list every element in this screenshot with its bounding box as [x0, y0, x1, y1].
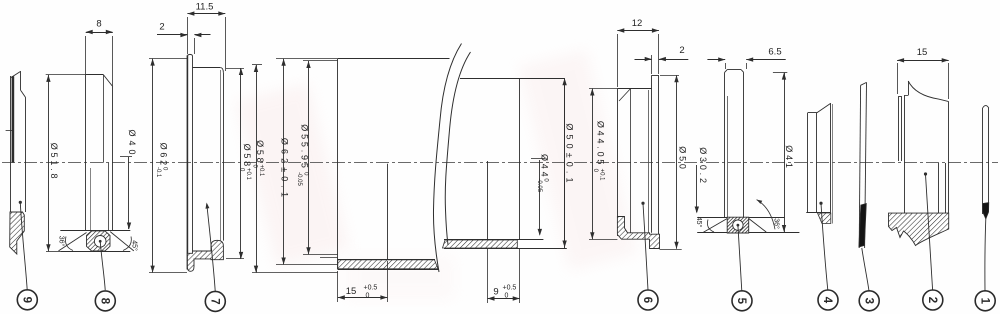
svg-text:45°: 45°: [695, 217, 703, 228]
svg-text:9: 9: [493, 287, 498, 298]
part 6: cup outline: [617, 89, 619, 236]
part 5 contact angle 36 deg: [749, 219, 767, 233]
svg-text:15: 15: [917, 47, 928, 58]
svg-text:45°: 45°: [131, 240, 139, 251]
part 2: cap outline: [898, 96, 900, 161]
leader to balloon 9: [19, 201, 22, 204]
head tube dim Ø55.95 -0.05: [303, 60, 338, 62]
part 8: bearing outline: [85, 75, 87, 231]
part 9 section hatch: [10, 212, 25, 254]
leader to balloon 8: [99, 240, 102, 243]
svg-text:Ø50±0.1: Ø50±0.1: [565, 123, 575, 186]
svg-text:Ø58: Ø58: [242, 144, 252, 169]
svg-text:4: 4: [821, 297, 833, 304]
leader to balloon 6: [641, 202, 644, 205]
part 3 dark section: [859, 204, 866, 248]
balloon 4: [818, 290, 838, 310]
part 7 dim 2: [194, 38, 196, 54]
svg-text:36°: 36°: [773, 218, 781, 229]
svg-text:-0.1: -0.1: [155, 167, 161, 178]
part 8 contact angle 45 deg: [110, 232, 134, 251]
svg-text:Ø58: Ø58: [255, 140, 265, 165]
svg-text:9: 9: [20, 297, 32, 303]
part 7: cup body: [193, 67, 221, 69]
svg-text:36°: 36°: [58, 236, 66, 247]
balloon 6: [638, 290, 658, 310]
head tube dim Ø62 ±0.1: [276, 58, 338, 60]
svg-text:Ø51.8: Ø51.8: [49, 143, 59, 182]
head tube dim 15 +0.5/0: [337, 271, 339, 302]
part 7 flange hatched section: [187, 240, 223, 271]
part 5 dim Ø41: [773, 72, 787, 74]
svg-text:12: 12: [632, 18, 643, 29]
svg-text:Ø44.05: Ø44.05: [596, 121, 606, 167]
balloon 1: [975, 291, 995, 311]
part 2 hatched section: [889, 213, 949, 245]
part 7: cup lip: [186, 55, 188, 269]
head tube dim Ø50 ±0.1: [564, 78, 566, 247]
part 7 dim 11.5: [187, 17, 189, 54]
part 1 dark tip: [983, 203, 989, 220]
part 8 dim Ø51.8: [46, 74, 86, 76]
svg-text:15: 15: [346, 286, 357, 297]
part 5 dim 6.5: [725, 63, 727, 69]
svg-text:Ø40: Ø40: [127, 129, 137, 158]
svg-text:Ø55.95: Ø55.95: [300, 124, 310, 170]
watermark tint: [236, 83, 350, 266]
part 4: ring outline: [807, 113, 809, 213]
svg-text:+0.1: +0.1: [599, 169, 605, 182]
part 6 dim 12: [617, 34, 619, 87]
leader to balloon 2: [924, 172, 927, 175]
part 7 dim Ø58 +0.1: [226, 68, 244, 70]
svg-text:5: 5: [735, 298, 747, 305]
svg-text:2: 2: [926, 297, 938, 303]
svg-text:8: 8: [96, 19, 101, 30]
head tube lower: outline: [460, 78, 565, 80]
head tube dim Ø58 +0.1: [252, 64, 262, 66]
part 6 flange hatched section: [617, 217, 659, 249]
break line S1: [433, 44, 461, 273]
head tube dim 9 +0.5/0: [487, 249, 489, 303]
svg-text:+0.5: +0.5: [364, 285, 378, 292]
part 7 dim Ø62 -0.1: [149, 58, 187, 60]
svg-text:7: 7: [208, 298, 220, 304]
part 6 dim Ø50: [660, 75, 679, 77]
part 4 hatched section: [818, 213, 831, 224]
svg-text:6: 6: [641, 297, 653, 303]
svg-text:Ø62: Ø62: [159, 143, 169, 168]
svg-text:Ø50: Ø50: [678, 146, 688, 171]
break line S2: [445, 52, 470, 245]
part 5: bearing outline: [724, 72, 726, 217]
leader to balloon 1: [984, 219, 987, 292]
svg-text:11.5: 11.5: [196, 2, 214, 13]
part 6 dim Ø44.05 +0.1: [589, 88, 617, 90]
part 1: outline: [982, 108, 984, 214]
svg-text:Ø41: Ø41: [784, 145, 794, 170]
svg-text:8: 8: [98, 298, 110, 305]
svg-text:+0.1: +0.1: [258, 164, 264, 177]
svg-text:1: 1: [978, 298, 990, 305]
part 3: washer outline: [859, 85, 860, 248]
svg-text:2: 2: [159, 22, 164, 33]
part 8 contact angle 36 deg: [59, 233, 87, 251]
part 8 dim Ø40: [120, 156, 132, 158]
balloon 7: [205, 291, 225, 311]
svg-text:Ø62±0.1: Ø62±0.1: [280, 138, 290, 201]
leader to balloon 7: [207, 204, 215, 291]
svg-text:-0.05: -0.05: [536, 178, 542, 192]
balloon 9: [17, 290, 37, 310]
part 6 dim 2: [651, 55, 653, 74]
balloon 3: [859, 291, 879, 311]
leader to balloon 4: [819, 202, 822, 205]
part 2 dim 15: [897, 63, 899, 94]
balloon 2: [923, 290, 943, 310]
svg-text:+0.5: +0.5: [503, 285, 517, 292]
head tube lower: bottom hatch band: [443, 240, 518, 248]
svg-text:+0.1: +0.1: [245, 168, 251, 181]
svg-text:2: 2: [679, 45, 684, 56]
part 8 bearing section: angle ref lines: [60, 230, 130, 232]
part 8 dim 8 (width): [85, 36, 87, 75]
head tube upper: bottom hatch band: [338, 260, 438, 269]
svg-text:6.5: 6.5: [768, 47, 781, 58]
leader to balloon 3: [862, 248, 869, 291]
svg-text:Ø30.2: Ø30.2: [698, 147, 708, 186]
svg-text:0: 0: [505, 293, 509, 300]
leader to balloon 5: [737, 224, 740, 227]
balloon 5: [732, 291, 752, 311]
main centerline (axis): [2, 162, 998, 164]
part 9: thin washer outline: [10, 76, 12, 212]
part 5 ball race dark hatched: [727, 217, 749, 233]
part 8 ball race hatched: [87, 231, 111, 251]
part 5 dim Ø30.2: [696, 165, 698, 212]
part 5 bearing section: angle ref lines: [697, 217, 784, 219]
svg-text:Ø44: Ø44: [540, 154, 550, 179]
part 5 contact angle 45 deg: [703, 219, 727, 233]
svg-text:0: 0: [366, 293, 370, 300]
svg-text:3: 3: [862, 298, 874, 304]
head tube upper: outline: [337, 59, 339, 270]
head tube dim Ø44 -0.05: [531, 158, 545, 160]
svg-text:-0.05: -0.05: [296, 172, 302, 186]
balloon 8: [95, 291, 115, 311]
